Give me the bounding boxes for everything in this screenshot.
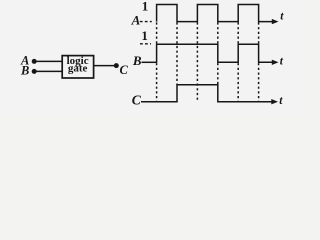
waveform B dashed one-level lead-in (140, 43, 151, 45)
waveform A square wave (157, 5, 273, 22)
logic gate box U1 (62, 56, 93, 78)
svg-text:1: 1 (141, 28, 148, 43)
svg-text:C: C (132, 93, 142, 108)
time grid line 6 dotted lower segment (258, 63, 260, 102)
waveform B square wave (157, 44, 273, 62)
waveform B time axis arrowhead (272, 60, 279, 65)
time grid line 5 dotted upper segment (237, 22, 239, 44)
waveform A dashed zero lead-in (140, 21, 152, 23)
svg-text:C: C (119, 63, 128, 77)
time grid line 5 dotted lower segment (237, 63, 239, 102)
waveform A time axis arrowhead (272, 19, 279, 24)
time grid line 3 dotted segment (196, 22, 198, 101)
waveform B zero lead-in wire (142, 61, 158, 63)
node A terminal dot (32, 59, 37, 64)
svg-text:B: B (132, 53, 142, 68)
time grid line 4 dotted lower segment (217, 63, 219, 85)
svg-text:1: 1 (142, 0, 149, 13)
time grid line 1 dotted upper segment (156, 22, 158, 44)
svg-text:gate: gate (68, 62, 88, 74)
wire B to gate (34, 70, 62, 72)
svg-text:A: A (131, 13, 141, 28)
time grid line 2 dotted segment (176, 22, 178, 84)
waveform C square wave (177, 85, 272, 102)
wire gate output to node C (94, 65, 116, 67)
time grid line 4 dotted upper segment (217, 22, 219, 44)
node B terminal dot (32, 69, 37, 74)
node C terminal dot (114, 63, 119, 68)
wire A to gate (34, 60, 62, 62)
waveform C zero lead-in wire (141, 101, 178, 103)
waveform C time axis arrowhead (271, 99, 278, 104)
svg-text:B: B (20, 64, 29, 78)
time grid line 1 dotted lower segment (156, 63, 158, 102)
time grid line 6 dotted upper segment (258, 22, 260, 44)
